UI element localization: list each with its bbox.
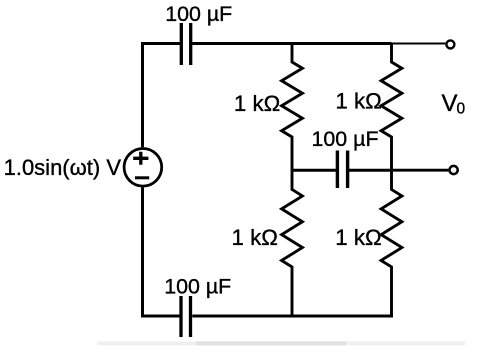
- bottom edge smudge artifact: [97, 342, 465, 346]
- svg-text:1 kΩ: 1 kΩ: [234, 91, 280, 116]
- resistor R2 top-right 1 kΩ: [381, 44, 402, 171]
- capacitor C1 100 µF top plates: [181, 23, 190, 65]
- svg-text:100 µF: 100 µF: [164, 275, 231, 299]
- resistor R4 bottom-right 1 kΩ: [381, 170, 402, 316]
- wire left lower: source bottom to bottom-left corner: [143, 187, 180, 316]
- voltage source plus sign: [133, 152, 148, 165]
- terminal middle output: [450, 166, 458, 174]
- svg-text:V: V: [442, 90, 458, 117]
- wire middle rail right: [349, 169, 392, 172]
- svg-text:100 µF: 100 µF: [165, 2, 232, 26]
- wire middle rail left: [292, 169, 336, 172]
- resistor R3 bottom-left 1 kΩ: [282, 170, 303, 316]
- capacitor C2 100 µF middle plates: [337, 151, 347, 189]
- wire bottom rail: [192, 315, 393, 318]
- svg-text:1.0sin(ωt) V: 1.0sin(ωt) V: [4, 155, 122, 180]
- svg-text:100 µF: 100 µF: [312, 127, 379, 151]
- wire middle terminal lead: [392, 169, 449, 172]
- voltage source minus sign: [135, 176, 149, 179]
- voltage source V1 circle: [124, 149, 162, 187]
- svg-text:1 kΩ: 1 kΩ: [335, 88, 381, 113]
- wire left loop: top-left corner down left side: [143, 44, 182, 148]
- wire top rail: [192, 42, 392, 45]
- svg-text:0: 0: [457, 101, 466, 118]
- svg-text:1 kΩ: 1 kΩ: [335, 225, 381, 250]
- svg-text:1 kΩ: 1 kΩ: [232, 225, 278, 250]
- terminal top output: [446, 40, 454, 48]
- resistor R1 top-left 1 kΩ: [282, 44, 303, 171]
- capacitor C3 100 µF bottom plates: [181, 296, 191, 337]
- wire top terminal lead: [392, 43, 446, 45]
